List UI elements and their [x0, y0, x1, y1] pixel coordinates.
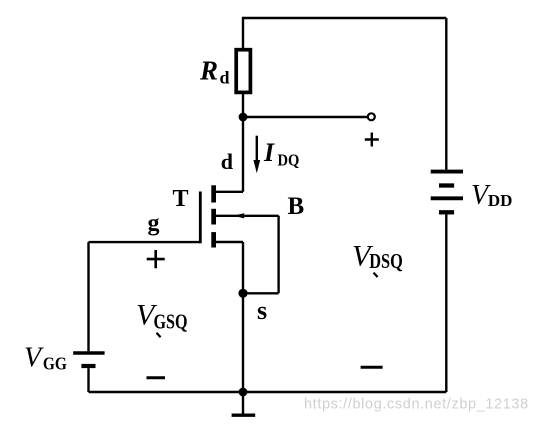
svg-text:B: B: [288, 193, 305, 220]
svg-text:https://blog.csdn.net/zbp_1213: https://blog.csdn.net/zbp_12138: [304, 397, 529, 413]
svg-text:d: d: [221, 149, 233, 174]
svg-text:R: R: [199, 56, 218, 86]
svg-text:g: g: [148, 211, 160, 237]
svg-text:T: T: [173, 186, 189, 212]
svg-text:DSQ: DSQ: [369, 249, 403, 273]
svg-text:DD: DD: [488, 191, 513, 210]
svg-text:V: V: [24, 343, 44, 374]
svg-text:DQ: DQ: [278, 151, 300, 170]
svg-text:s: s: [257, 296, 267, 325]
svg-text:GG: GG: [43, 354, 67, 374]
svg-text:I: I: [263, 138, 275, 167]
svg-text:GSQ: GSQ: [154, 309, 188, 333]
svg-text:d: d: [220, 68, 230, 88]
